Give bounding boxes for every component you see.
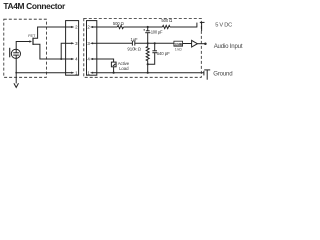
node audio-C1-R3 — [147, 42, 149, 44]
wire pin1 arrow lead left box — [66, 72, 73, 74]
wire R2 to 5V terminal — [170, 26, 197, 28]
wire capsule bottom lead down to case arrow — [15, 55, 17, 83]
wire R1 to node — [124, 26, 163, 28]
active load arrow mark — [112, 63, 115, 66]
wire amp to audio output — [197, 43, 204, 45]
node R3-C3 bottom — [147, 63, 149, 65]
junction dots — [15, 26, 206, 74]
svg-text:500 Ω: 500 Ω — [161, 18, 172, 23]
svg-text:Load: Load — [119, 66, 129, 71]
wire pad to amp — [183, 43, 192, 45]
mic capsule circle — [11, 49, 20, 58]
svg-text:1µF: 1µF — [131, 37, 139, 42]
arrow pin1 right — [90, 72, 93, 74]
wire FET drain to pin2 row — [33, 27, 66, 38]
pad box U2 — [174, 41, 183, 46]
svg-text:5 V DC: 5 V DC — [215, 22, 232, 28]
active load box — [111, 62, 116, 67]
resistor R2 500 ohm zigzag — [162, 25, 170, 28]
connector shell J2 (jack) — [87, 21, 97, 76]
node rail-C1 — [147, 26, 149, 28]
transmitter dashed enclosure — [84, 18, 202, 77]
svg-text:FET: FET — [28, 34, 36, 38]
wire C2 to pad box — [135, 42, 174, 44]
resistor R3 910k zigzag — [146, 43, 149, 64]
node capsule-ground — [15, 72, 17, 74]
svg-text:Audio Input: Audio Input — [214, 43, 243, 50]
mic capsule plates — [13, 52, 19, 54]
wire pin3 audio line to C2 — [97, 42, 133, 44]
op-amp U1 buffer triangle — [192, 40, 198, 47]
wire pin4 arrow lead left box — [66, 58, 73, 60]
arrow pin4 right — [90, 58, 93, 60]
wire pin3 arrow lead left box — [66, 42, 73, 44]
node audio output end — [204, 43, 207, 46]
wire pin2 rail to R1 — [97, 26, 118, 28]
svg-text:1 kΩ: 1 kΩ — [175, 47, 182, 51]
wire capsule top lead to gate — [16, 42, 30, 53]
mic capsule diaphragm bar — [9, 48, 11, 58]
arrow pin4 left — [71, 58, 74, 60]
gate arrowhead — [29, 40, 32, 43]
wire pin3 right box exit — [92, 42, 97, 44]
node ground-R3 — [147, 72, 149, 74]
svg-text:Ground: Ground — [213, 71, 232, 78]
wire pin2 arrow lead left box — [66, 26, 73, 28]
capacitor C1 100uF leads — [147, 27, 149, 31]
case open arrowhead — [14, 83, 19, 87]
terminal tick ground — [203, 71, 205, 76]
microphone dashed enclosure — [4, 19, 47, 77]
connector shell J1 (plug) — [66, 21, 79, 76]
svg-text:100 µF: 100 µF — [151, 29, 163, 34]
arrow pin2 right — [90, 26, 93, 28]
resistor R1 500 ohm zigzag — [117, 25, 123, 28]
external labels — [213, 22, 243, 77]
wire active load to ground — [113, 67, 115, 73]
capacitor C2 1uF plates — [131, 41, 133, 46]
arrow pin1 left — [71, 72, 74, 74]
arrow pin3 left — [71, 42, 74, 44]
terminal pin ground — [204, 69, 210, 71]
wire FET source to pin4 row — [33, 44, 66, 59]
terminal pin 5V — [200, 21, 205, 23]
svg-text:TA4M Connector: TA4M Connector — [3, 1, 66, 11]
node jumper-pin4 — [60, 58, 62, 60]
wire pin2 right box exit — [92, 26, 97, 28]
node ground-active-load — [113, 72, 115, 74]
arrow pin3 right — [90, 42, 93, 44]
wire pin4 to active load — [97, 59, 114, 62]
transistor Q1 FET channel bar — [32, 38, 34, 45]
component value labels — [28, 18, 183, 71]
terminal tick 5V — [196, 23, 198, 28]
svg-text:640 pF: 640 pF — [157, 51, 170, 56]
arrow pin2 left — [71, 26, 74, 28]
svg-text:500 Ω: 500 Ω — [113, 21, 124, 26]
pin number labels — [75, 25, 90, 76]
wire pin1 right box exit — [92, 72, 97, 74]
wire R3 bottom to ground line — [147, 64, 149, 73]
wire ground line — [97, 72, 204, 74]
svg-text:910k Ω: 910k Ω — [127, 47, 141, 52]
node audio-C3 — [154, 42, 156, 44]
capacitor C3 640pF leads — [154, 43, 156, 51]
wire jumper pin3 to pin4 — [61, 43, 65, 59]
svg-text:12dB: 12dB — [174, 42, 183, 47]
wire pin1 ground from capsule — [16, 72, 65, 74]
wire pin4 right box exit — [92, 58, 97, 60]
